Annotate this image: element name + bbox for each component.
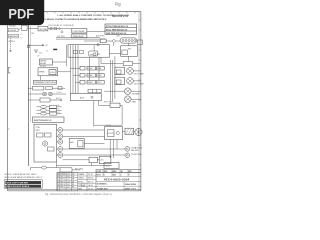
vertical feeds to motor rows — [111, 56, 115, 102]
wire — [131, 98, 141, 100]
wire — [52, 61, 66, 63]
svg-text:CONT RELAY: CONT RELAY — [73, 30, 86, 33]
svg-text:( B ): ( B ) — [100, 160, 104, 162]
junction box flat — [104, 163, 119, 169]
svg-text:XFMR: XFMR — [39, 71, 45, 73]
row boxes r1 — [80, 66, 104, 70]
top tick boxes on F1 — [88, 89, 101, 93]
svg-text:K1 AC: K1 AC — [88, 67, 94, 70]
inner box F3 — [78, 141, 83, 147]
small box F2 — [110, 103, 120, 107]
svg-text:SH: SH — [121, 171, 123, 173]
frame top border — [8, 11, 141, 13]
svg-text:L2: L2 — [21, 38, 23, 40]
wire — [133, 63, 141, 65]
wire — [120, 104, 122, 106]
wire stub from diamond — [113, 43, 115, 46]
page background — [0, 0, 149, 198]
svg-text:NOTE 10 SEE TABLE FOR WIRE NO.: NOTE 10 SEE TABLE FOR WIRE NO. ONLY C — [5, 176, 44, 179]
svg-text:4EC4-63 2-04: 4EC4-63 2-04 — [112, 14, 129, 18]
title cells text — [97, 171, 132, 177]
frame bottom border — [8, 190, 141, 192]
connector strip J1 (oval with pins) — [120, 38, 137, 43]
svg-text:DB: DB — [72, 181, 74, 183]
vertical bus group center — [67, 45, 79, 94]
wire — [48, 28, 72, 30]
svg-text:REV 2: REV 2 — [60, 179, 65, 181]
svg-text:F1: F1 — [58, 105, 60, 107]
svg-text:K2 AC: K2 AC — [88, 74, 94, 77]
wire — [58, 71, 71, 73]
breaker box CB1 — [38, 26, 48, 31]
lower title rows — [96, 182, 141, 191]
svg-text:POWER DIST: POWER DIST — [97, 188, 109, 190]
wire — [56, 38, 105, 40]
mid-left instrument box B1 — [38, 68, 58, 76]
tall box B7 — [34, 124, 57, 162]
svg-text:TO BATT BUS: TO BATT BUS — [131, 146, 143, 149]
svg-text:B: B — [58, 176, 59, 178]
junction diamond — [112, 39, 116, 43]
row interconnect vertical a — [89, 57, 91, 80]
svg-text:RS: RS — [72, 187, 74, 189]
svg-text:SCHEMATIC -: SCHEMATIC - — [97, 183, 108, 186]
control wire pair — [56, 38, 105, 40]
terminal box TB1 — [9, 28, 19, 31]
terminal circle row B — [125, 153, 130, 158]
chassis ground — [34, 50, 38, 52]
dark dash label — [53, 49, 57, 51]
wire — [56, 37, 100, 39]
wires bottom row — [57, 160, 113, 166]
reference stamp box — [4, 180, 42, 188]
svg-text:CHGR: CHGR — [106, 125, 112, 127]
switch box S1 — [100, 39, 106, 43]
inner relay circles — [42, 141, 47, 146]
svg-text:ISSUE: ISSUE — [60, 174, 65, 176]
wire drop from F1 — [93, 101, 95, 127]
frame small tick left — [8, 128, 10, 130]
distribution box G1 — [68, 45, 110, 58]
bottom right cluster outer box — [105, 127, 123, 140]
terminal circles right of B7 — [58, 128, 63, 158]
svg-text:2. RELAY CONTACTS SHOWN DE-ENE: 2. RELAY CONTACTS SHOWN DE-ENERGIZED SEE… — [45, 18, 108, 21]
wire to selector — [87, 31, 105, 33]
svg-text:SEL: SEL — [117, 36, 120, 38]
svg-text:Fig. 12 Electrical power dist: Fig. 12 Electrical power distribution - … — [45, 193, 112, 196]
fuse F4 — [41, 166, 46, 169]
frame left border — [7, 12, 9, 191]
inner module a — [74, 50, 78, 53]
wire — [106, 40, 112, 42]
wire drop into box — [93, 45, 95, 51]
svg-text:D.K. 62: D.K. 62 — [88, 189, 93, 191]
inner unit — [122, 50, 128, 55]
flat box B2 — [34, 80, 57, 84]
motor M5 — [135, 128, 142, 135]
revision table text — [58, 173, 75, 189]
wire — [28, 28, 38, 30]
svg-text:CB1 20A: CB1 20A — [39, 28, 47, 31]
inner module boxes B7 — [37, 133, 44, 137]
motor row 1 contactor box — [115, 67, 125, 74]
svg-text:F2: F2 — [58, 109, 60, 111]
svg-text:K9 DC: K9 DC — [56, 98, 62, 100]
svg-text:DB: DB — [72, 179, 74, 181]
wire row y41 — [84, 40, 100, 42]
PDF badge — [0, 0, 44, 25]
svg-text:5-20: 5-20 — [67, 181, 70, 183]
svg-text:W.E. 62: W.E. 62 — [88, 181, 94, 183]
svg-text:B2: B2 — [46, 45, 48, 47]
svg-text:115V AC: 115V AC — [9, 29, 17, 32]
stamp bar 2 — [5, 185, 41, 188]
stub box — [58, 87, 62, 90]
svg-text:1: 1 — [121, 175, 122, 177]
svg-text:REV 4: REV 4 — [60, 184, 65, 186]
wires B7 to terminals — [57, 130, 58, 155]
wire — [18, 28, 21, 30]
svg-text:P101 28V A6 TO C4 SH2 B6 K7: P101 28V A6 TO C4 SH2 B6 K7 — [49, 24, 75, 27]
svg-text:9-01: 9-01 — [67, 184, 70, 186]
svg-text:REV 1: REV 1 — [60, 176, 65, 178]
hatch filter box — [125, 128, 134, 134]
svg-text:8-04: 8-04 — [67, 176, 70, 178]
frame zone tick marks top — [15, 12, 135, 14]
svg-text:6-12: 6-12 — [67, 174, 70, 176]
wire — [52, 87, 65, 89]
connector pins — [122, 40, 136, 42]
inner grid box — [108, 130, 115, 137]
svg-text:YAW TRIM SW NO3 C4: YAW TRIM SW NO3 C4 — [106, 32, 127, 35]
connector drop wire — [127, 43, 129, 46]
inner circle — [116, 132, 119, 135]
drawing number row — [96, 181, 141, 183]
middle cells text — [78, 173, 93, 190]
svg-text:TO EXT PWR: TO EXT PWR — [131, 154, 142, 156]
approval circle stamp — [81, 183, 85, 187]
motor M3 — [125, 88, 132, 95]
wire — [133, 80, 141, 82]
junction circle — [61, 31, 63, 33]
svg-text:2-11: 2-11 — [67, 179, 70, 181]
wire drop — [121, 105, 123, 125]
row boxes r3 — [80, 80, 104, 84]
svg-text:4EC4-6920-0304: 4EC4-6920-0304 — [104, 178, 130, 182]
svg-text:T.S. 61: T.S. 61 — [88, 174, 93, 176]
lower title text — [97, 183, 137, 191]
wire right from F1 — [99, 104, 110, 106]
wire drop from F1 right — [98, 101, 100, 106]
svg-text:T1: T1 — [46, 51, 48, 53]
middle cells — [78, 172, 97, 191]
svg-text:SCALE NONE: SCALE NONE — [125, 183, 137, 186]
svg-text:REG 28V: REG 28V — [104, 101, 112, 103]
switch panel box — [39, 59, 52, 65]
wire — [116, 40, 121, 42]
frame zone bracket left — [8, 68, 10, 73]
wire — [101, 63, 123, 65]
svg-text:SHEET 1 OF 2: SHEET 1 OF 2 — [125, 188, 136, 190]
svg-text:Fig: Fig — [115, 1, 121, 6]
wire — [110, 52, 121, 54]
svg-text:W12 W14: W12 W14 — [57, 36, 64, 38]
wire r2 — [73, 74, 80, 76]
svg-text:K3 AC: K3 AC — [88, 81, 94, 84]
wire dashed drop — [10, 38, 12, 51]
main vertical bus left — [27, 24, 29, 166]
frame zone tick marks right — [139, 20, 141, 165]
wide header box B6 — [33, 117, 65, 122]
bus junction tick — [27, 45, 29, 47]
svg-text:NO.1 PUMP: NO.1 PUMP — [134, 73, 144, 75]
svg-text:6920: 6920 — [113, 175, 117, 177]
control box A2 lower — [72, 34, 87, 38]
module box with inner unit right — [121, 46, 138, 57]
svg-text:L1: L1 — [21, 34, 23, 36]
junction circle — [97, 44, 99, 46]
svg-text:ROLL TRIM SW NO2 C4: ROLL TRIM SW NO2 C4 — [106, 28, 128, 31]
wire drop — [40, 76, 42, 81]
title cells top right rows — [96, 170, 141, 177]
svg-text:C4 C5: C4 C5 — [57, 92, 62, 94]
svg-text:SIZE: SIZE — [104, 171, 107, 173]
wire — [53, 93, 66, 95]
inner module c — [89, 51, 98, 56]
svg-text:ONLY DO NOT SCALE: ONLY DO NOT SCALE — [6, 185, 30, 188]
frame tab box right — [137, 40, 142, 44]
inner module b — [80, 50, 84, 53]
wire drop from module — [127, 56, 129, 61]
motor M1 — [127, 68, 134, 75]
wire r1 — [71, 67, 81, 69]
motor M4 — [125, 96, 132, 103]
frame right inner border — [138, 12, 140, 191]
svg-text:3-17: 3-17 — [67, 187, 70, 189]
svg-text:J.M. 62: J.M. 62 — [88, 185, 93, 187]
svg-text:F: F — [129, 175, 130, 177]
svg-text:TERMINAL STRIP TB2 A: TERMINAL STRIP TB2 A — [34, 81, 56, 84]
fuse rows y105-115 — [40, 105, 56, 115]
svg-text:81205: 81205 — [97, 175, 101, 177]
inner box — [94, 53, 96, 56]
revision table — [57, 172, 78, 191]
svg-text:R.W. 61: R.W. 61 — [88, 178, 94, 180]
aux box near bus — [22, 25, 28, 30]
svg-text:A4 REF: A4 REF — [40, 62, 46, 65]
wire drop — [100, 57, 102, 63]
svg-text:AUX PWR: AUX PWR — [96, 35, 105, 38]
svg-text:CODE: CODE — [97, 171, 101, 173]
svg-text:THIS COPY FOR REF: THIS COPY FOR REF — [6, 183, 29, 185]
control box A2 upper — [72, 29, 87, 33]
terminal circle row A — [125, 147, 130, 152]
bus second conductor — [29, 26, 31, 122]
svg-text:REV DATE: REV DATE — [75, 167, 84, 170]
wire — [133, 70, 141, 72]
title block outline — [57, 170, 141, 191]
relay box K1 — [9, 34, 19, 38]
wire from small box — [72, 169, 80, 171]
stamp bar 1 — [5, 181, 41, 184]
svg-text:MAIN BUS: MAIN BUS — [9, 35, 18, 38]
svg-text:RS: RS — [72, 184, 74, 186]
row B4 capacitors — [42, 93, 53, 96]
wires cluster — [123, 130, 126, 132]
svg-text:REV 5: REV 5 — [60, 187, 65, 189]
svg-text:PITCH TRIM SW NO1 C4: PITCH TRIM SW NO1 C4 — [106, 25, 129, 28]
wires from bus to B3/B4/B5 — [28, 88, 42, 100]
small box right of note — [60, 168, 72, 172]
small box above motor row — [123, 62, 132, 66]
svg-text:CHECK: CHECK — [78, 178, 85, 180]
lower small box F3 — [69, 139, 84, 149]
bottom small boxes row — [89, 157, 97, 162]
contact b — [54, 28, 57, 30]
wire stub down — [56, 162, 58, 168]
row interconnect vertical b — [98, 57, 100, 80]
junction diamond small — [58, 28, 60, 30]
svg-text:F: F — [58, 187, 59, 189]
row boxes r2 — [80, 73, 104, 77]
center flat box F1 — [70, 94, 101, 101]
ground — [9, 51, 12, 52]
terminal inner dots — [59, 129, 61, 156]
arrow feed from bus — [29, 44, 45, 46]
inner small box — [48, 147, 55, 151]
svg-text:PS1: PS1 — [97, 54, 100, 56]
svg-text:GD2: GD2 — [39, 52, 43, 54]
svg-text:E: E — [58, 184, 59, 186]
svg-text:REV 3: REV 3 — [60, 181, 65, 183]
svg-text:NOTE 3: NOTE 3 — [9, 41, 16, 43]
svg-text:PDF: PDF — [8, 6, 34, 21]
inner coil box — [116, 80, 121, 84]
svg-text:SEE SHT 2: SEE SHT 2 — [131, 150, 140, 152]
wire — [104, 90, 124, 92]
wire r3 — [76, 81, 81, 83]
svg-text:F3: F3 — [58, 112, 60, 114]
svg-text:CTRL: CTRL — [36, 127, 41, 129]
long wires from terminals — [63, 130, 125, 155]
frame bottom inner line — [8, 189, 141, 191]
vertical feeds bottom right — [110, 140, 117, 158]
wire — [84, 143, 104, 145]
inner coil box — [116, 70, 121, 74]
wire arrow — [50, 99, 62, 100]
bottom note text line — [31, 168, 61, 170]
svg-text:NO.2 PUMP: NO.2 PUMP — [134, 83, 144, 85]
frame right border — [140, 12, 142, 191]
row B5 box — [40, 98, 50, 102]
motor row 2 contactor box — [115, 77, 125, 84]
contact a — [50, 28, 52, 30]
wire across — [94, 124, 122, 126]
wire — [131, 90, 141, 92]
inner dash — [90, 53, 93, 55]
legend box 3-row top right — [105, 24, 137, 34]
row B3 boxes — [33, 86, 44, 90]
svg-text:JUNCTION BOX J2: JUNCTION BOX J2 — [34, 120, 53, 122]
wires fuse rows — [37, 107, 62, 114]
inner meter — [49, 70, 56, 75]
svg-text:BLOWER: BLOWER — [132, 94, 140, 96]
svg-text:REV: REV — [129, 171, 132, 173]
motor M2 — [127, 78, 134, 85]
